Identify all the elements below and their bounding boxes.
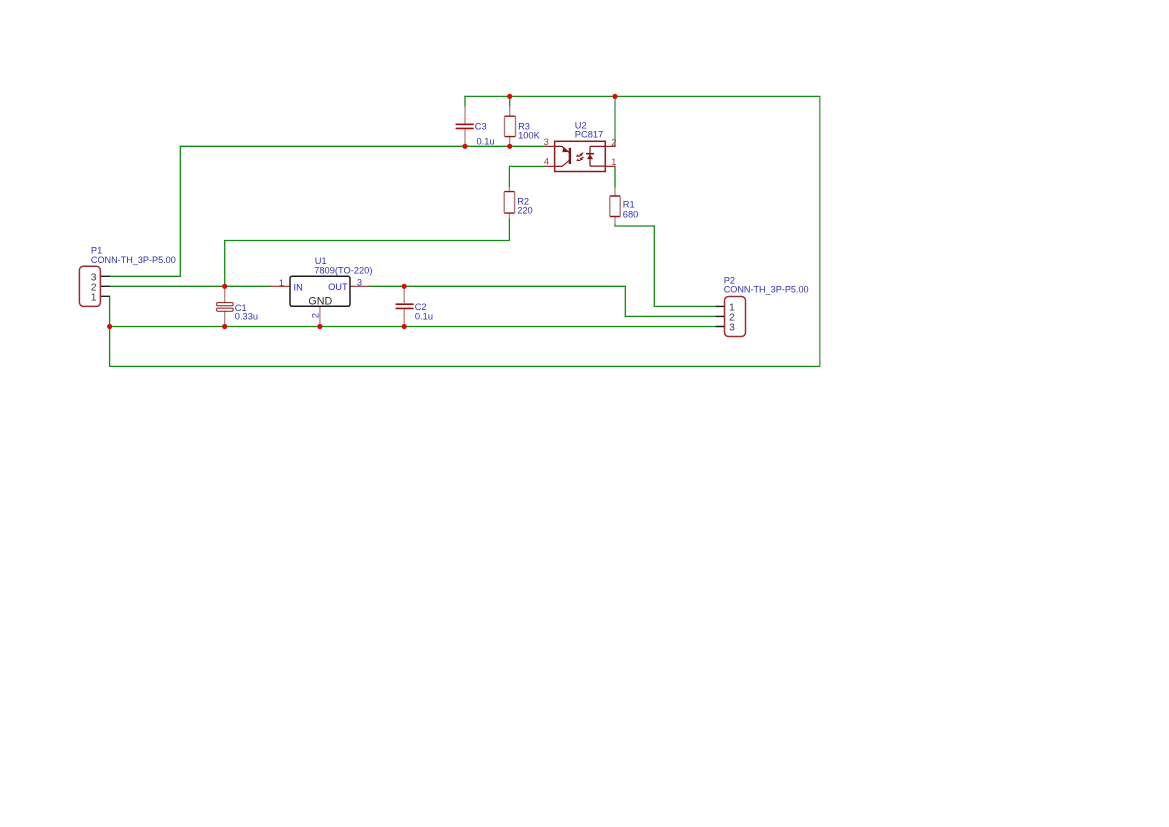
svg-text:1: 1 — [91, 292, 97, 303]
svg-text:OUT: OUT — [328, 282, 348, 292]
svg-text:3: 3 — [544, 137, 549, 147]
svg-text:220: 220 — [517, 206, 533, 216]
svg-text:PC817: PC817 — [575, 129, 603, 139]
svg-text:GND: GND — [308, 295, 332, 307]
svg-text:CONN-TH_3P-P5.00: CONN-TH_3P-P5.00 — [91, 255, 176, 265]
svg-text:7809(TO-220): 7809(TO-220) — [314, 266, 372, 276]
svg-text:1: 1 — [279, 278, 284, 288]
svg-text:1: 1 — [611, 157, 616, 167]
svg-text:IN: IN — [294, 282, 303, 292]
svg-text:0.1u: 0.1u — [477, 137, 495, 147]
svg-text:3: 3 — [357, 278, 362, 288]
svg-text:R1: R1 — [623, 200, 635, 210]
svg-text:100K: 100K — [518, 131, 541, 141]
svg-text:CONN-TH_3P-P5.00: CONN-TH_3P-P5.00 — [724, 285, 809, 295]
svg-text:0.33u: 0.33u — [235, 312, 258, 322]
svg-text:2: 2 — [611, 137, 616, 147]
svg-text:0.1u: 0.1u — [415, 311, 433, 321]
svg-text:C3: C3 — [475, 121, 487, 131]
svg-text:4: 4 — [544, 157, 549, 167]
svg-text:3: 3 — [729, 322, 735, 333]
svg-text:680: 680 — [623, 210, 639, 220]
svg-text:2: 2 — [311, 313, 321, 318]
